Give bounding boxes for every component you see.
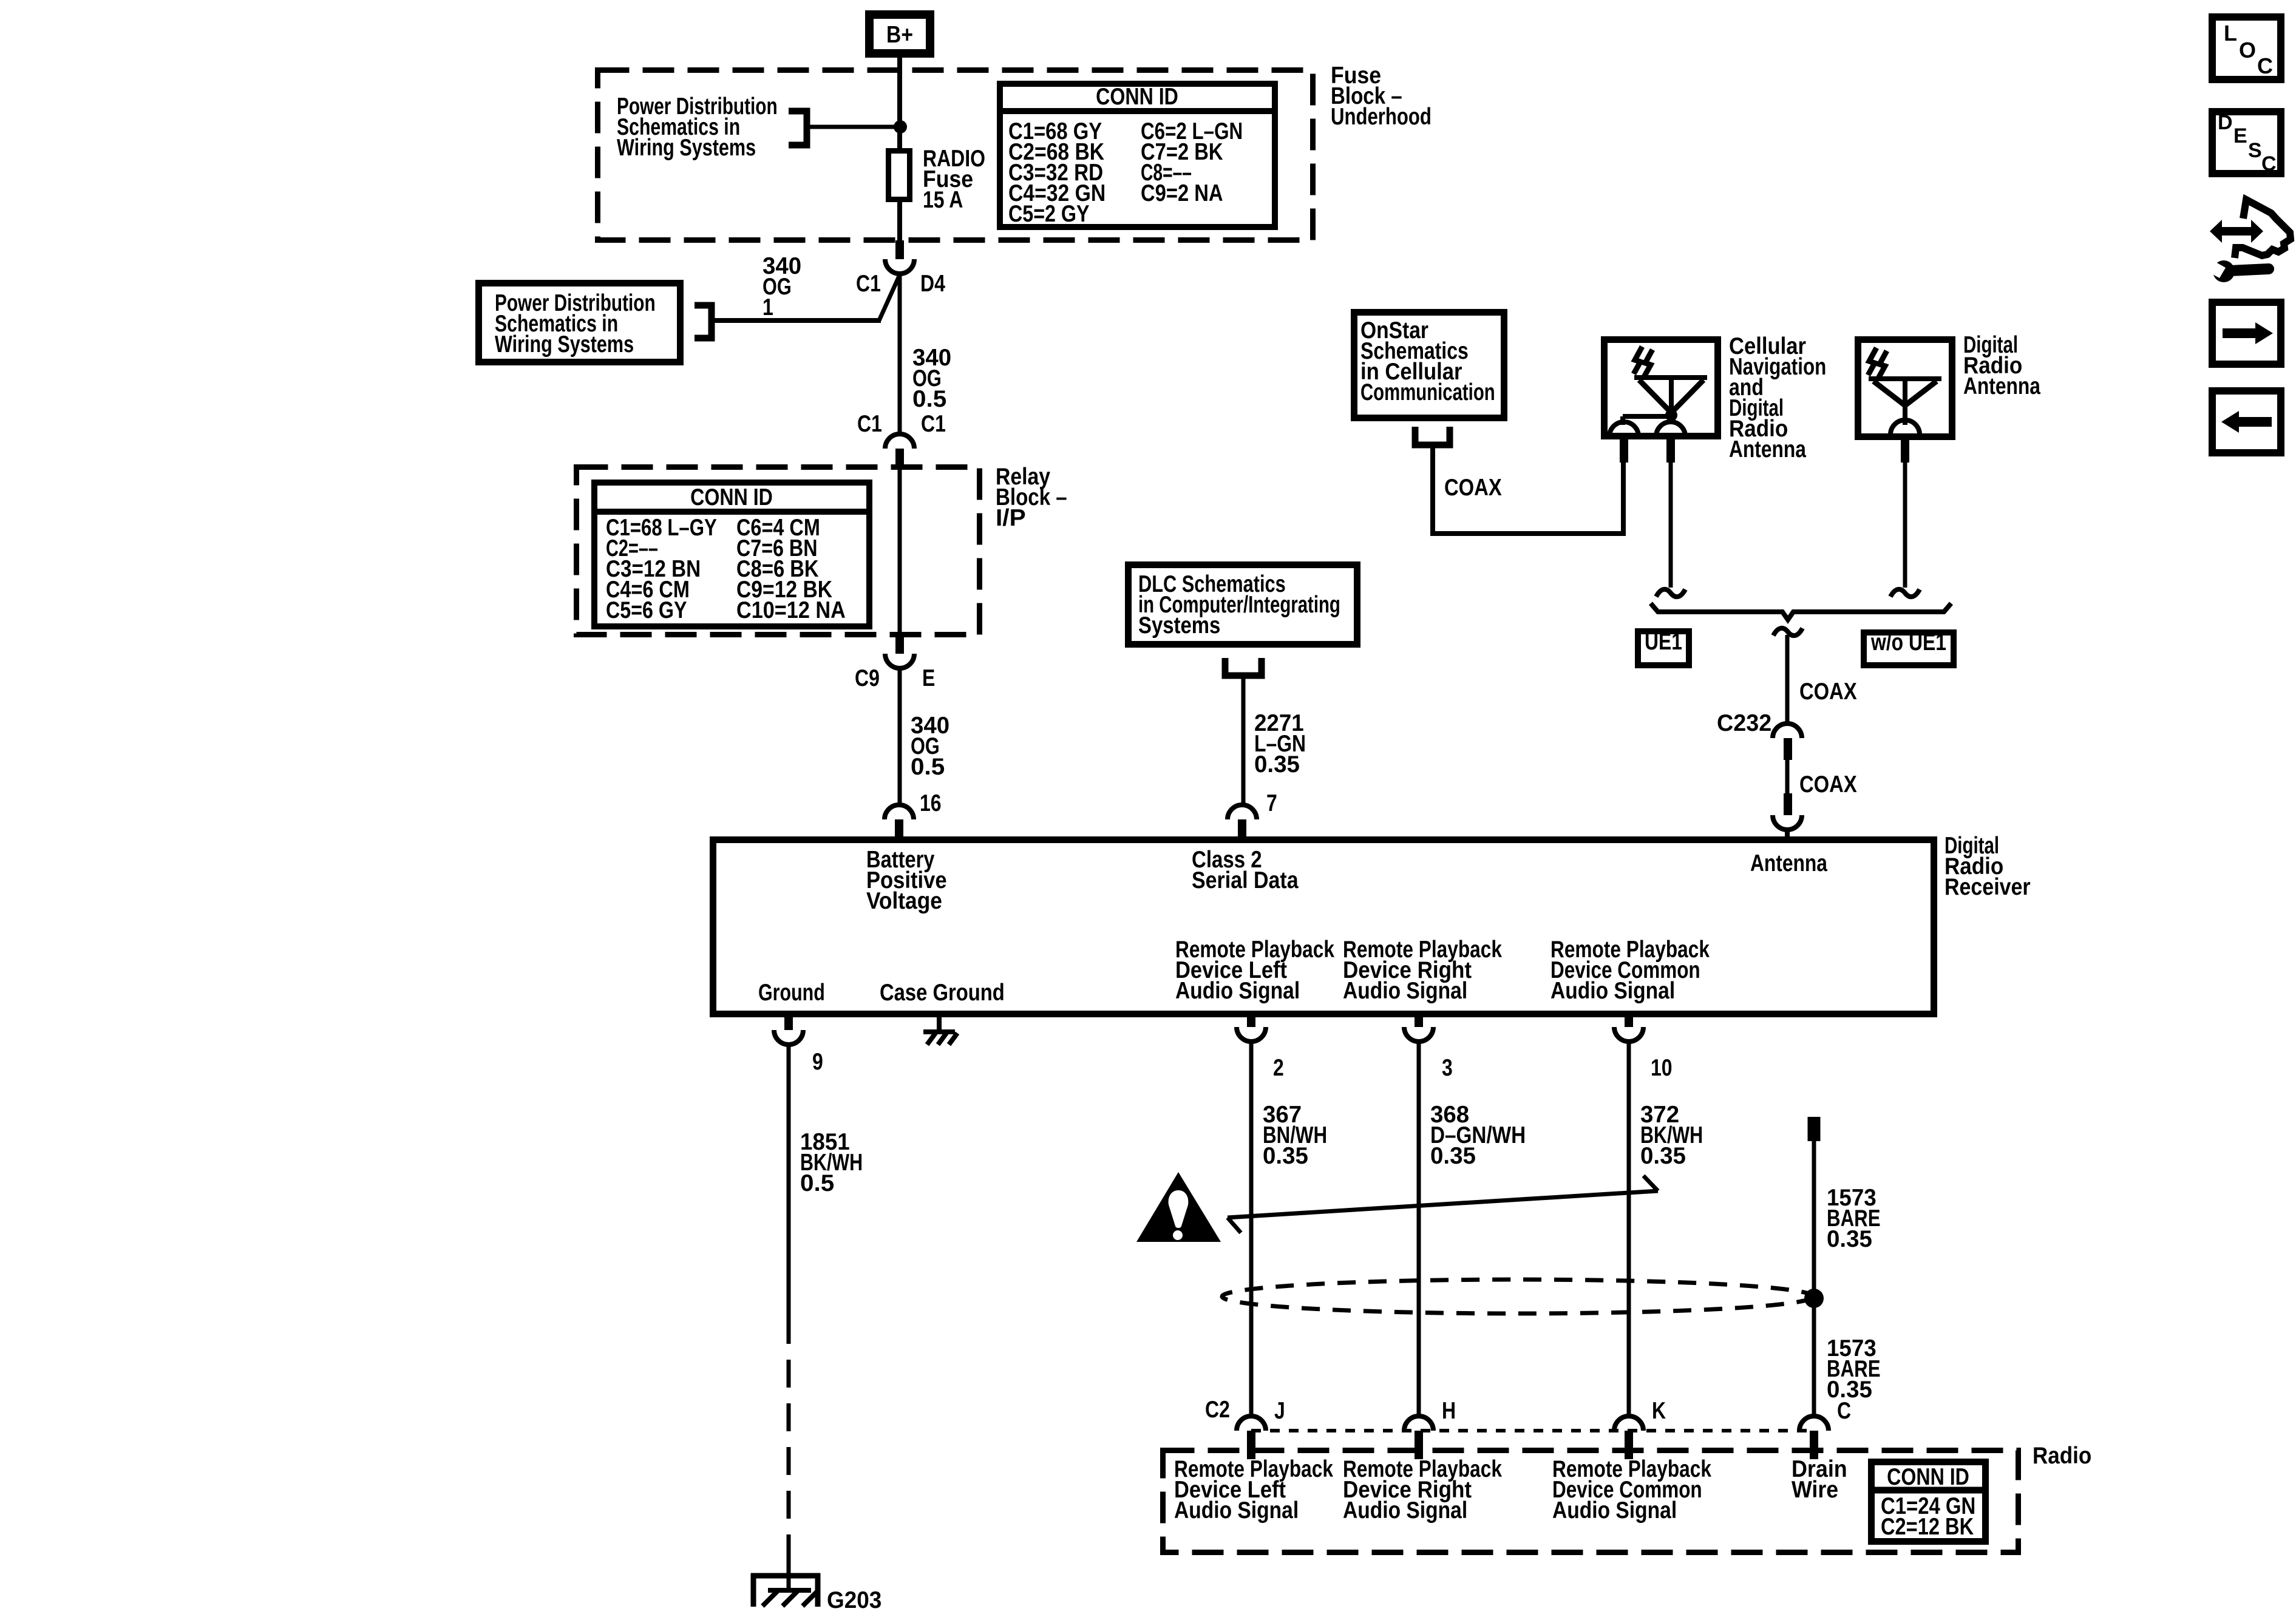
DLC Schematics box [1129, 565, 1357, 645]
twisted pair ellipse [1222, 1280, 1813, 1314]
svg-text:D4: D4 [920, 270, 945, 297]
chassis ground symbol [923, 1029, 955, 1034]
svg-text:COAX: COAX [1799, 770, 1857, 797]
svg-text:H: H [1442, 1397, 1456, 1424]
svg-text:Radio: Radio [2033, 1442, 2091, 1468]
svg-text:Wiring Systems: Wiring Systems [617, 135, 756, 161]
connector C9 E [895, 637, 904, 654]
digital radio antenna box [1858, 340, 1952, 437]
svg-text:0.35: 0.35 [1640, 1143, 1686, 1169]
svg-text:C5=6 GY: C5=6 GY [606, 597, 687, 623]
svg-text:C1: C1 [857, 410, 882, 437]
svg-text:C: C [2261, 152, 2277, 175]
bracket power distribution 2 [695, 305, 712, 338]
svg-text:16: 16 [920, 790, 942, 816]
digital radio receiver box [713, 840, 1934, 1014]
icon arrow left box [2212, 391, 2281, 453]
svg-text:0.5: 0.5 [911, 754, 945, 780]
svg-text:Case Ground: Case Ground [880, 978, 1005, 1005]
antenna pin into receiver [1784, 793, 1792, 815]
pin 9 connector [784, 1014, 793, 1030]
wire B+ to fuse [897, 58, 902, 151]
wire 340 OG 1 diagonal [898, 274, 902, 433]
brace antenna selection [1651, 603, 1951, 620]
B+ terminal box [865, 10, 934, 58]
wire through relay block [898, 466, 902, 637]
svg-text:C: C [2257, 53, 2273, 78]
svg-text:9: 9 [812, 1048, 823, 1075]
svg-text:0.35: 0.35 [1430, 1143, 1476, 1169]
wire 340 OG 0.5 to receiver [898, 668, 902, 806]
svg-text:CONN ID: CONN ID [1887, 1463, 1969, 1490]
svg-text:0.5: 0.5 [800, 1170, 834, 1196]
svg-text:7: 7 [1266, 790, 1277, 816]
svg-text:Antenna: Antenna [1963, 373, 2040, 399]
pin 2 connector [1247, 1014, 1255, 1027]
radio pin J [1247, 1431, 1255, 1459]
leader arrow [1228, 1191, 1658, 1218]
CONN ID table fuse block [1000, 84, 1275, 227]
svg-text:B+: B+ [886, 21, 913, 48]
svg-text:C9=2 NA: C9=2 NA [1141, 179, 1223, 206]
svg-text:Audio Signal: Audio Signal [1552, 1497, 1677, 1524]
svg-text:COAX: COAX [1444, 473, 1502, 500]
svg-text:Audio Signal: Audio Signal [1550, 977, 1675, 1004]
svg-text:Antenna: Antenna [1729, 436, 1806, 463]
svg-text:Audio Signal: Audio Signal [1343, 1497, 1467, 1524]
svg-text:Wiring Systems: Wiring Systems [495, 331, 634, 358]
drain wire [1808, 1117, 1821, 1141]
svg-text:0.35: 0.35 [1263, 1143, 1308, 1169]
fuse RADIO 15A [889, 151, 910, 200]
w/o UE1 box [1864, 632, 1954, 665]
wire junction to bracket [810, 125, 900, 129]
svg-text:2: 2 [1273, 1054, 1284, 1081]
svg-text:0.5: 0.5 [912, 386, 946, 412]
CONN ID table radio [1872, 1462, 1986, 1542]
icon arrow right box [2212, 302, 2281, 364]
svg-text:C1: C1 [921, 410, 946, 437]
svg-text:15 A: 15 A [923, 186, 963, 213]
svg-text:COAX: COAX [1799, 677, 1857, 704]
cellular antenna pins [1620, 439, 1628, 463]
svg-text:Voltage: Voltage [866, 887, 942, 914]
icon DESC box [2212, 112, 2281, 174]
svg-text:Antenna: Antenna [1750, 850, 1827, 876]
svg-text:Underhood: Underhood [1331, 104, 1432, 130]
warning triangle [1136, 1172, 1221, 1242]
icon vehicle with arrow [2235, 200, 2291, 258]
svg-text:UE1: UE1 [1645, 628, 1682, 655]
svg-text:C9: C9 [855, 665, 880, 691]
svg-text:C10=12 NA: C10=12 NA [736, 597, 846, 623]
bracket DLC [1225, 658, 1262, 676]
svg-text:E: E [2233, 124, 2247, 147]
OnStar Schematics box [1354, 313, 1504, 418]
svg-text:Ground: Ground [758, 979, 825, 1005]
svg-text:D: D [2218, 111, 2233, 134]
radio pin C [1810, 1431, 1818, 1459]
svg-text:Communication: Communication [1360, 379, 1495, 405]
svg-text:Audio Signal: Audio Signal [1175, 977, 1300, 1004]
svg-text:Audio Signal: Audio Signal [1343, 977, 1467, 1004]
svg-text:0.35: 0.35 [1827, 1226, 1872, 1252]
radio connector dashed line [1251, 1429, 1814, 1432]
radio dashed box [1163, 1451, 2019, 1553]
svg-text:C1: C1 [856, 270, 881, 297]
wire 367 BN/WH [1249, 1042, 1254, 1416]
power distribution box 2 [479, 283, 681, 362]
pin 3 connector [1415, 1014, 1423, 1027]
svg-text:O: O [2239, 38, 2256, 63]
fuse block - underhood dashed box [598, 70, 1313, 240]
svg-text:K: K [1652, 1397, 1666, 1424]
icon LOC box [2212, 17, 2281, 80]
UE1 box [1638, 631, 1689, 665]
wire fuse to block edge [897, 202, 902, 242]
ground G203 symbol [751, 1573, 820, 1579]
wire 2271 L-GN 0.35 [1241, 676, 1246, 806]
bracket OnStar [1415, 427, 1450, 445]
pin 10 connector [1625, 1014, 1633, 1027]
svg-text:1: 1 [763, 294, 773, 320]
svg-text:E: E [922, 665, 935, 691]
svg-text:Wire: Wire [1792, 1476, 1838, 1503]
svg-text:CONN ID: CONN ID [1096, 83, 1178, 110]
svg-text:CONN ID: CONN ID [690, 484, 773, 510]
svg-text:Serial Data: Serial Data [1192, 867, 1299, 893]
relay block IP dashed box [577, 467, 980, 635]
svg-text:C: C [1837, 1397, 1851, 1424]
antenna symbol cellular [1634, 347, 1642, 374]
node junction at fuse feed [894, 120, 907, 134]
svg-text:C2: C2 [1205, 1396, 1230, 1423]
svg-text:L: L [2224, 21, 2237, 46]
bracket power distribution 1 [789, 111, 807, 145]
svg-text:G203: G203 [827, 1587, 881, 1613]
digital antenna pin [1901, 440, 1909, 463]
svg-text:S: S [2248, 139, 2262, 162]
antenna symbol digital [1868, 348, 1877, 375]
svg-text:3: 3 [1442, 1054, 1453, 1081]
svg-text:Receiver: Receiver [1944, 873, 2031, 900]
case ground pin [937, 1014, 942, 1032]
svg-text:10: 10 [1651, 1054, 1673, 1081]
svg-text:Systems: Systems [1138, 611, 1220, 638]
coax wire onstar to cellular antenna [1433, 445, 1623, 534]
connector C1 D4 [895, 240, 904, 259]
svg-text:0.35: 0.35 [1254, 751, 1300, 778]
svg-text:Audio Signal: Audio Signal [1174, 1497, 1299, 1524]
svg-text:J: J [1274, 1397, 1285, 1424]
wire digital antenna lead [1903, 463, 1907, 588]
svg-text:C5=2 GY: C5=2 GY [1008, 200, 1090, 227]
wire 1851 BK/WH [787, 1045, 791, 1316]
svg-text:C232: C232 [1717, 710, 1771, 736]
wire 372 BK/WH [1627, 1042, 1631, 1416]
wire 368 D–GN/WH [1417, 1042, 1421, 1416]
cellular navigation antenna box [1605, 340, 1718, 436]
junction dot drain [1804, 1289, 1824, 1308]
coax wire to C232 [1785, 635, 1790, 724]
wire cellular antenna lead [1669, 463, 1673, 588]
icon wrench [2213, 260, 2235, 282]
radio pin H [1415, 1431, 1423, 1459]
icon double arrow [2210, 220, 2263, 243]
svg-text:C2=12 BK: C2=12 BK [1881, 1513, 1974, 1539]
svg-text:I/P: I/P [996, 505, 1026, 531]
svg-text:w/o UE1: w/o UE1 [1870, 629, 1946, 656]
radio pin K [1625, 1431, 1633, 1459]
CONN ID table relay block [594, 483, 869, 626]
